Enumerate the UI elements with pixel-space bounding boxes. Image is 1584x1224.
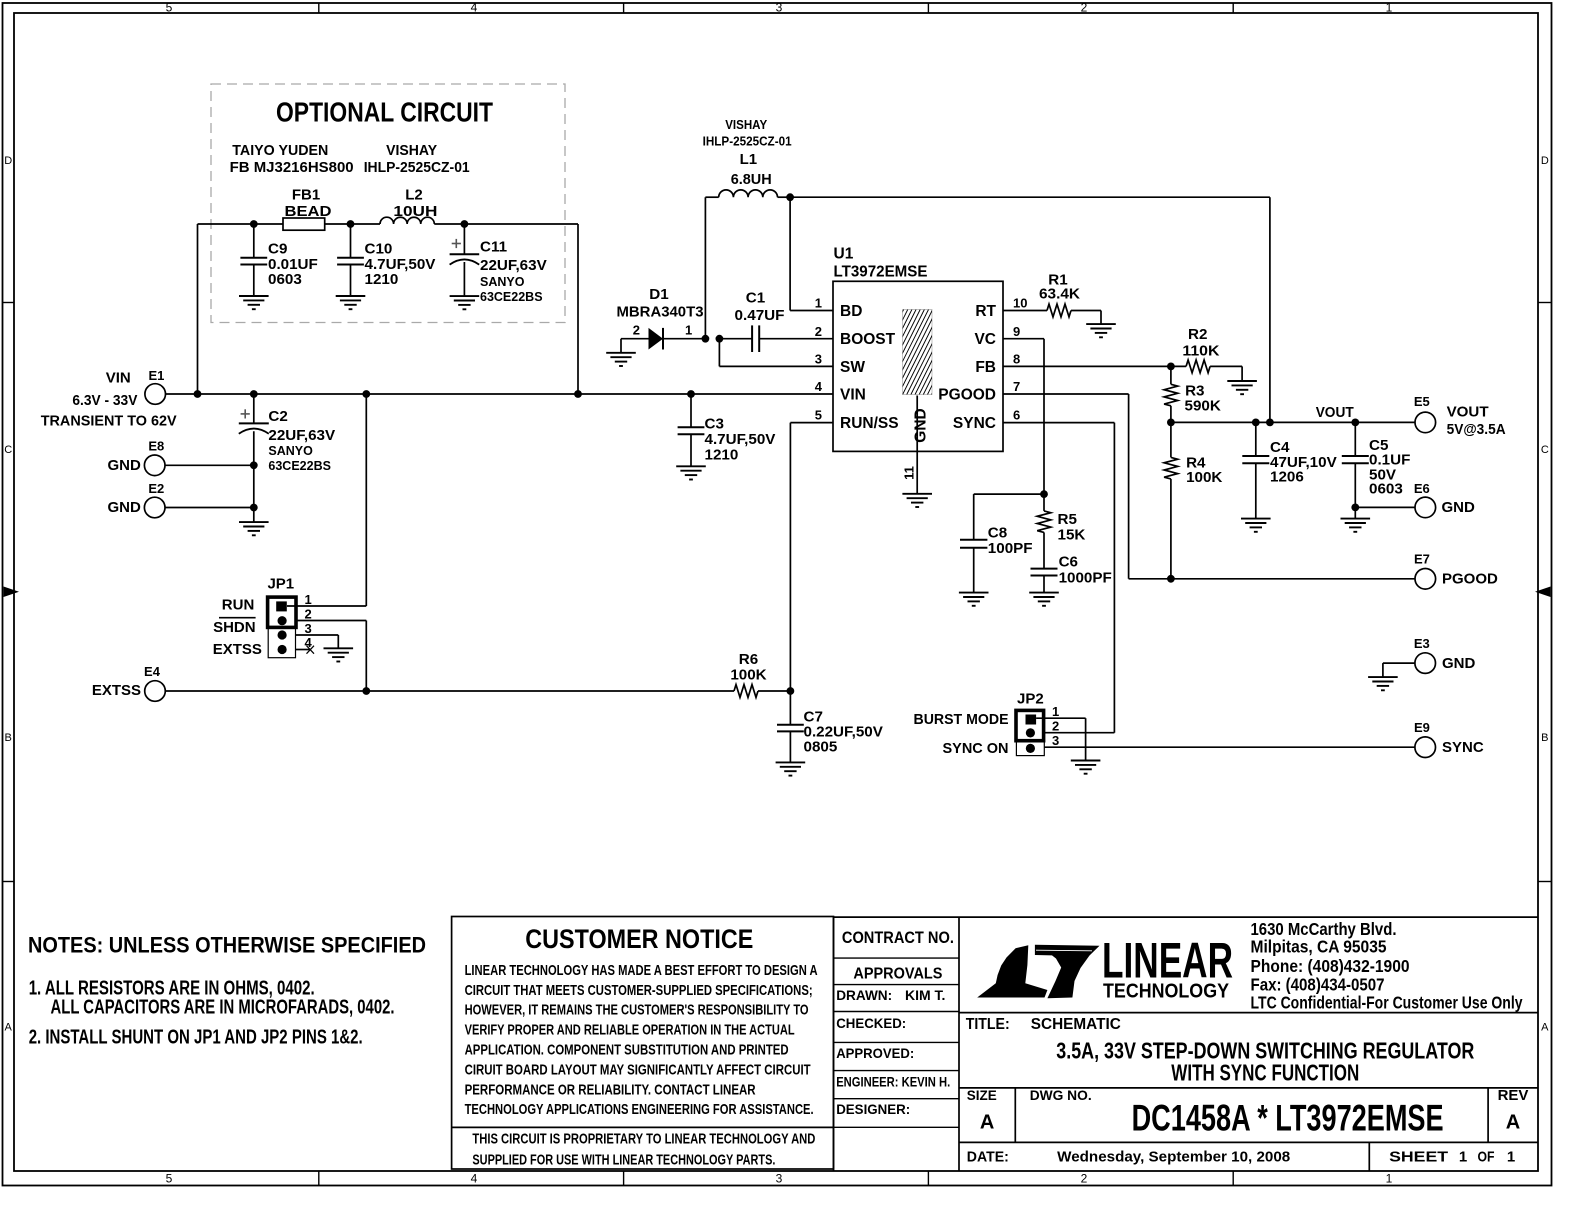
svg-text:WITH SYNC FUNCTION: WITH SYNC FUNCTION <box>1171 1060 1359 1086</box>
overline SHDN <box>219 617 256 619</box>
wire R6 to RUN/SS <box>758 690 790 692</box>
ground C2 <box>239 522 269 535</box>
svg-text:CUSTOMER NOTICE: CUSTOMER NOTICE <box>525 924 753 954</box>
wire VC <box>1003 338 1044 340</box>
svg-text:L1: L1 <box>740 151 758 168</box>
terminal E8 GND <box>144 455 165 476</box>
svg-text:63CE22BS: 63CE22BS <box>268 459 331 473</box>
svg-text:1: 1 <box>305 592 312 607</box>
svg-text:B: B <box>1541 732 1548 744</box>
junction VIN/JP1 <box>362 390 370 398</box>
svg-text:C2: C2 <box>268 408 287 425</box>
terminal E1 VIN <box>145 384 166 405</box>
zone ticks left/right <box>3 302 15 304</box>
wire FB <box>1003 365 1186 367</box>
svg-text:EXTSS: EXTSS <box>213 641 262 658</box>
junction rail <box>1266 419 1274 427</box>
svg-text:APPROVED:: APPROVED: <box>836 1045 914 1061</box>
terminal E9 SYNC <box>1415 737 1436 758</box>
svg-text:1: 1 <box>1386 0 1393 14</box>
terminal E7 PGOOD <box>1415 569 1436 590</box>
svg-text:L2: L2 <box>405 187 423 204</box>
wire JP2 pin3 to E9 <box>1044 746 1415 748</box>
svg-text:1210: 1210 <box>365 271 399 288</box>
ground C6 <box>1029 593 1059 606</box>
capacitor C6 <box>1031 568 1058 570</box>
svg-text:VISHAY: VISHAY <box>725 117 767 132</box>
capacitor C9 <box>253 224 255 258</box>
svg-text:C11: C11 <box>480 239 508 256</box>
svg-text:5V@3.5A: 5V@3.5A <box>1447 421 1506 438</box>
svg-text:CIRCUIT THAT MEETS CUSTOMER-SU: CIRCUIT THAT MEETS CUSTOMER-SUPPLIED SPE… <box>465 982 813 999</box>
svg-text:SANYO: SANYO <box>268 444 313 458</box>
resistor R6 <box>734 685 758 698</box>
svg-text:VISHAY: VISHAY <box>386 142 437 159</box>
svg-text:E3: E3 <box>1414 636 1430 651</box>
ground C11 <box>450 296 480 309</box>
capacitor C8 <box>974 493 1044 495</box>
svg-text:TITLE:: TITLE: <box>966 1016 1010 1033</box>
svg-text:EXTSS: EXTSS <box>92 682 141 699</box>
svg-text:7: 7 <box>1013 379 1020 394</box>
resistor R5 <box>1043 494 1045 511</box>
svg-text:FB1: FB1 <box>292 187 320 204</box>
junction VIN/C2 <box>250 390 258 398</box>
svg-text:R2: R2 <box>1188 326 1207 343</box>
capacitor C3 <box>690 394 692 427</box>
resistor R2 <box>1186 360 1210 373</box>
wire E3 to ground <box>1383 662 1415 664</box>
svg-text:4: 4 <box>471 0 478 14</box>
svg-text:R5: R5 <box>1058 511 1078 528</box>
wire vertical left of optional circuit <box>197 224 199 394</box>
svg-text:FB: FB <box>975 359 996 376</box>
svg-text:100K: 100K <box>730 667 766 684</box>
svg-text:E7: E7 <box>1414 552 1430 567</box>
ground E3 <box>1368 677 1398 690</box>
U1 pin 11 <box>916 396 918 494</box>
svg-text:A: A <box>1506 1111 1520 1133</box>
junction C2/E8 <box>250 461 258 469</box>
svg-text:TRANSIENT TO 62V: TRANSIENT TO 62V <box>41 413 177 430</box>
junction C5/E6 <box>1351 504 1359 512</box>
svg-text:LT3972EMSE: LT3972EMSE <box>834 264 928 281</box>
svg-text:0805: 0805 <box>804 738 838 755</box>
svg-text:VOUT: VOUT <box>1316 405 1354 421</box>
svg-text:SYNC ON: SYNC ON <box>943 740 1009 757</box>
svg-text:0603: 0603 <box>1369 480 1403 497</box>
capacitor C2 (polarized) <box>253 394 255 423</box>
ground C7 <box>776 762 806 775</box>
wire BD vertical <box>789 197 791 310</box>
svg-text:PGOOD: PGOOD <box>1442 571 1498 588</box>
svg-text:D: D <box>4 155 12 167</box>
svg-text:GND: GND <box>1442 655 1476 672</box>
svg-text:C8: C8 <box>988 525 1007 542</box>
junction EXTSS/JP1 <box>362 687 370 695</box>
svg-text:4.7UF,50V: 4.7UF,50V <box>705 431 777 448</box>
svg-text:5: 5 <box>166 0 173 14</box>
svg-text:1: 1 <box>685 322 692 337</box>
ground R1 <box>1086 324 1116 337</box>
svg-text:C10: C10 <box>365 241 393 258</box>
junction VC/C8/R5 <box>1040 490 1048 498</box>
svg-text:2: 2 <box>305 607 312 622</box>
svg-text:E2: E2 <box>148 481 164 496</box>
junction R4/PGOOD <box>1167 575 1175 583</box>
svg-text:C6: C6 <box>1059 554 1078 571</box>
svg-text:THIS CIRCUIT IS PROPRIETARY TO: THIS CIRCUIT IS PROPRIETARY TO LINEAR TE… <box>472 1131 815 1148</box>
svg-text:0.47UF: 0.47UF <box>735 307 785 324</box>
svg-text:C1: C1 <box>746 290 766 307</box>
ferrite bead FB1 <box>283 218 325 230</box>
svg-text:SCHEMATIC: SCHEMATIC <box>1031 1016 1121 1033</box>
wire JP1 pin2 down to EXTSS net <box>296 620 367 622</box>
node C9 tap <box>250 220 258 228</box>
svg-text:R6: R6 <box>739 651 758 668</box>
svg-text:VERIFY PROPER AND RELIABLE OPE: VERIFY PROPER AND RELIABLE OPERATION IN … <box>465 1022 795 1039</box>
svg-text:Phone: (408)432-1900: Phone: (408)432-1900 <box>1251 956 1410 976</box>
svg-text:2: 2 <box>633 322 640 337</box>
svg-text:BD: BD <box>840 303 862 320</box>
terminal E5 VOUT <box>1415 412 1436 433</box>
svg-text:DWG NO.: DWG NO. <box>1030 1087 1092 1103</box>
junction VIN/optional-right <box>574 390 582 398</box>
ground R2 <box>1227 381 1257 394</box>
svg-text:JP1: JP1 <box>267 575 294 592</box>
ground D1 <box>606 353 636 366</box>
svg-text:DESIGNER:: DESIGNER: <box>836 1101 910 1117</box>
svg-text:ALL CAPACITORS ARE IN MICROFAR: ALL CAPACITORS ARE IN MICROFARADS, 0402. <box>51 997 395 1019</box>
svg-text:3: 3 <box>305 621 312 636</box>
centering arrow left <box>4 587 20 598</box>
svg-text:1: 1 <box>1507 1149 1515 1166</box>
wire D1 anode to ground <box>620 339 622 353</box>
svg-text:1000PF: 1000PF <box>1059 570 1112 587</box>
svg-text:OPTIONAL CIRCUIT: OPTIONAL CIRCUIT <box>276 96 493 127</box>
svg-text:DC1458A * LT3972EMSE: DC1458A * LT3972EMSE <box>1132 1098 1444 1139</box>
wire VOUT top rail <box>790 196 1270 198</box>
svg-text:SHEET: SHEET <box>1389 1149 1448 1166</box>
svg-text:GND: GND <box>913 408 930 442</box>
op-amp U1 LT3972EMSE body <box>833 281 1003 451</box>
svg-text:590K: 590K <box>1185 398 1221 415</box>
svg-text:TECHNOLOGY: TECHNOLOGY <box>1103 981 1230 1003</box>
svg-text:SYNC: SYNC <box>1442 739 1484 756</box>
node C11 tap <box>461 220 469 228</box>
resistor R1 <box>1003 310 1047 312</box>
svg-text:10: 10 <box>1013 296 1027 311</box>
title block lines <box>834 916 1539 918</box>
svg-text:2: 2 <box>1052 719 1059 734</box>
svg-text:RUN/SS: RUN/SS <box>840 415 899 432</box>
junction C4 <box>1252 419 1260 427</box>
svg-text:VIN: VIN <box>106 370 131 387</box>
capacitor C10 <box>350 224 352 258</box>
terminal E3 GND <box>1415 653 1436 674</box>
svg-text:3: 3 <box>815 352 822 367</box>
svg-text:11: 11 <box>902 466 917 480</box>
svg-text:JP2: JP2 <box>1017 691 1044 708</box>
svg-text:RT: RT <box>975 303 996 320</box>
svg-text:1210: 1210 <box>705 447 739 464</box>
terminal E4 EXTSS <box>145 681 166 702</box>
svg-text:SW: SW <box>840 359 865 376</box>
wire JP1 pin1 to VIN <box>287 605 366 607</box>
svg-text:2: 2 <box>1081 0 1088 14</box>
LT logo mark <box>977 945 1047 997</box>
svg-text:E6: E6 <box>1414 481 1430 496</box>
svg-text:Wednesday, September 10, 2008: Wednesday, September 10, 2008 <box>1057 1149 1290 1166</box>
svg-text:2: 2 <box>815 324 822 339</box>
svg-text:2. INSTALL SHUNT ON JP1 AND J: 2. INSTALL SHUNT ON JP1 AND JP2 PINS 1&2… <box>29 1027 363 1049</box>
svg-text:TECHNOLOGY APPLICATIONS ENGINE: TECHNOLOGY APPLICATIONS ENGINEERING FOR … <box>465 1101 814 1118</box>
junction VIN/optional-left <box>194 390 202 398</box>
ground C3 <box>676 466 706 479</box>
centering arrow right <box>1535 587 1551 598</box>
wire E8 <box>165 464 254 466</box>
svg-text:22UF,63V: 22UF,63V <box>268 427 336 444</box>
inductor L2 <box>380 217 434 224</box>
svg-text:APPROVALS: APPROVALS <box>853 965 942 982</box>
junction VIN/C3 <box>687 390 695 398</box>
wire vertical right of optional circuit <box>577 224 579 394</box>
svg-text:SIZE: SIZE <box>967 1087 997 1103</box>
svg-text:E5: E5 <box>1414 394 1430 409</box>
wire JP2 pin2 to SYNC <box>1044 732 1114 734</box>
node BOOST junctions <box>702 335 710 343</box>
resistor R4 <box>1170 422 1172 457</box>
capacitor C5 <box>1354 422 1356 456</box>
capacitor C11 (polarized) <box>463 224 465 254</box>
junction R3/R4/VOUT <box>1167 419 1175 427</box>
svg-text:3: 3 <box>1052 733 1059 748</box>
wire VIN rail <box>165 393 833 395</box>
svg-text:APPLICATION. COMPONENT SUBSTI: APPLICATION. COMPONENT SUBSTITUTION AND … <box>465 1042 789 1059</box>
junction R6/C7/RUNSS <box>787 687 795 695</box>
svg-text:FB MJ3216HS800: FB MJ3216HS800 <box>230 159 354 176</box>
svg-text:E4: E4 <box>144 664 161 679</box>
svg-text:E8: E8 <box>148 439 164 454</box>
svg-text:A: A <box>980 1111 994 1133</box>
optional circuit dashed box <box>211 84 565 323</box>
terminal E6 GND <box>1415 497 1436 518</box>
svg-text:LTC Confidential-For Customer: LTC Confidential-For Customer Use Only <box>1251 992 1523 1012</box>
svg-text:C9: C9 <box>268 241 287 258</box>
resistor R3 <box>1170 366 1172 384</box>
svg-text:3: 3 <box>776 0 783 14</box>
svg-text:BURST MODE: BURST MODE <box>914 711 1009 728</box>
ground C8 <box>959 593 989 606</box>
ground C5 <box>1341 519 1371 532</box>
junction L1/BD/VOUT-rail <box>786 193 794 201</box>
svg-text:IHLP-2525CZ-01: IHLP-2525CZ-01 <box>364 159 470 176</box>
svg-text:GND: GND <box>107 457 141 474</box>
svg-text:B: B <box>5 732 12 744</box>
wire SW <box>718 339 720 367</box>
svg-text:1: 1 <box>1386 1172 1393 1186</box>
svg-text:IHLP-2525CZ-01: IHLP-2525CZ-01 <box>703 134 792 149</box>
svg-text:6.8UH: 6.8UH <box>731 171 772 188</box>
wire JP2 pin1 to ground <box>1036 717 1086 719</box>
svg-text:D1: D1 <box>649 286 669 303</box>
svg-text:A: A <box>1541 1021 1549 1033</box>
svg-text:SANYO: SANYO <box>480 275 525 289</box>
svg-text:BOOST: BOOST <box>840 331 896 348</box>
U1 exposed pad hatch <box>903 310 932 395</box>
svg-text:9: 9 <box>1013 324 1020 339</box>
svg-text:PGOOD: PGOOD <box>938 387 996 404</box>
svg-text:63CE22BS: 63CE22BS <box>480 290 543 304</box>
svg-text:5: 5 <box>815 408 822 423</box>
wire SYNC <box>1003 422 1114 424</box>
svg-text:D: D <box>1541 155 1549 167</box>
JP1 pin4 stub with X no-connect <box>296 649 312 651</box>
node C10 tap <box>347 220 355 228</box>
svg-text:100PF: 100PF <box>988 540 1033 557</box>
svg-text:LINEAR TECHNOLOGY HAS MADE A B: LINEAR TECHNOLOGY HAS MADE A BEST EFFORT… <box>465 962 818 979</box>
customer notice box <box>452 917 834 1170</box>
svg-text:5: 5 <box>166 1172 173 1186</box>
ground C9 <box>239 296 269 309</box>
svg-text:GND: GND <box>107 499 141 516</box>
svg-text:0603: 0603 <box>268 271 302 288</box>
svg-text:KIM T.: KIM T. <box>905 987 945 1003</box>
svg-text:TAIYO YUDEN: TAIYO YUDEN <box>232 142 328 159</box>
svg-text:CONTRACT NO.: CONTRACT NO. <box>842 928 954 947</box>
svg-text:REV: REV <box>1498 1087 1529 1104</box>
svg-text:1: 1 <box>1052 704 1059 719</box>
svg-text:PERFORMANCE OR RELIABILITY. C: PERFORMANCE OR RELIABILITY. CONTACT LINE… <box>465 1081 756 1098</box>
svg-text:15K: 15K <box>1058 527 1086 544</box>
wire EXTSS <box>165 690 734 692</box>
wire optional row <box>198 223 284 225</box>
svg-text:ENGINEER: KEVIN H.: ENGINEER: KEVIN H. <box>836 1074 950 1090</box>
svg-text:OF: OF <box>1478 1149 1495 1166</box>
svg-text:MBRA340T3: MBRA340T3 <box>617 303 704 320</box>
svg-text:E9: E9 <box>1414 720 1430 735</box>
svg-text:NOTES: UNLESS OTHERWISE SPECI: NOTES: UNLESS OTHERWISE SPECIFIED <box>28 933 426 958</box>
svg-text:4: 4 <box>815 379 823 394</box>
terminal E2 GND <box>144 497 165 518</box>
svg-text:HOWEVER, IT REMAINS THE CUSTOM: HOWEVER, IT REMAINS THE CUSTOMER'S RESPO… <box>465 1002 809 1019</box>
svg-text:Milpitas, CA 95035: Milpitas, CA 95035 <box>1251 936 1387 956</box>
svg-text:8: 8 <box>1013 352 1020 367</box>
svg-text:U1: U1 <box>834 246 854 263</box>
svg-text:VC: VC <box>974 331 996 348</box>
svg-text:A: A <box>5 1021 13 1033</box>
svg-text:1: 1 <box>815 296 822 311</box>
svg-text:110K: 110K <box>1182 343 1219 360</box>
svg-text:GND: GND <box>1442 499 1476 516</box>
ground C4 <box>1241 519 1271 532</box>
capacitor C4 <box>1255 422 1257 456</box>
svg-text:1206: 1206 <box>1270 469 1304 486</box>
junction C2/E2 <box>250 504 258 512</box>
zone ticks top/bottom <box>318 3 320 13</box>
wire E2 <box>165 507 254 509</box>
junction C5 <box>1351 419 1359 427</box>
svg-text:RUN: RUN <box>222 596 255 613</box>
ground C10 <box>336 296 366 309</box>
svg-text:C: C <box>4 444 12 456</box>
svg-text:63.4K: 63.4K <box>1039 286 1080 303</box>
ground JP2 <box>1071 761 1101 774</box>
wire C5 to E6 <box>1355 506 1415 508</box>
wire JP1 pin3 to ground <box>296 634 339 636</box>
svg-text:6.3V - 33V: 6.3V - 33V <box>72 392 137 409</box>
wire VOUT <box>1171 421 1416 423</box>
capacitor C7 <box>789 691 791 725</box>
wire RUN/SS vertical <box>789 423 791 691</box>
svg-text:E1: E1 <box>148 368 164 383</box>
svg-text:DATE:: DATE: <box>967 1149 1009 1166</box>
svg-text:100K: 100K <box>1186 469 1222 486</box>
svg-text:CHECKED:: CHECKED: <box>836 1015 906 1031</box>
svg-text:2: 2 <box>1081 1172 1088 1186</box>
svg-text:1: 1 <box>1459 1149 1467 1166</box>
svg-text:3: 3 <box>776 1172 783 1186</box>
svg-text:CIRUIT BOARD LAYOUT MAY SIGNIF: CIRUIT BOARD LAYOUT MAY SIGNIFICANTLY AF… <box>465 1061 811 1078</box>
svg-text:4: 4 <box>471 1172 478 1186</box>
junction FB/R2/R3 <box>1167 363 1175 371</box>
wire PGOOD <box>1003 393 1129 395</box>
ground U1 pin11 <box>902 494 932 507</box>
svg-text:SUPPLIED FOR USE WITH LINEAR T: SUPPLIED FOR USE WITH LINEAR TECHNOLOGY … <box>472 1151 775 1168</box>
svg-text:VOUT: VOUT <box>1447 403 1489 420</box>
svg-text:SYNC: SYNC <box>953 415 996 432</box>
svg-text:SHDN: SHDN <box>213 619 256 636</box>
ground JP1 pin3 <box>324 648 354 661</box>
svg-text:DRAWN:: DRAWN: <box>836 987 892 1003</box>
svg-text:6: 6 <box>1013 408 1020 423</box>
wire L1 left vertical <box>704 197 706 339</box>
svg-text:VIN: VIN <box>840 387 866 404</box>
svg-text:22UF,63V: 22UF,63V <box>480 257 548 274</box>
svg-text:C: C <box>1541 444 1549 456</box>
